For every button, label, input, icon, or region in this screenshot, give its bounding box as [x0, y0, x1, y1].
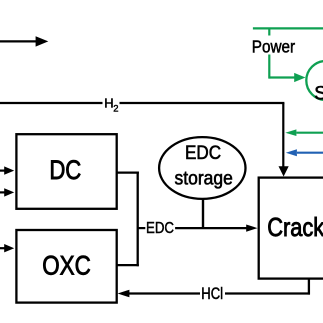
svg-text:Power: Power [252, 36, 296, 56]
svg-text:EDC: EDC [185, 142, 221, 163]
svg-text:S: S [314, 84, 323, 105]
svg-text:EDC: EDC [146, 220, 174, 237]
svg-text:Cracker: Cracker [267, 213, 323, 242]
svg-text:2: 2 [113, 103, 118, 114]
svg-text:H: H [104, 96, 113, 111]
svg-text:HCl: HCl [201, 284, 223, 303]
svg-text:storage: storage [175, 167, 233, 189]
svg-text:DC: DC [49, 156, 81, 186]
svg-text:OXC: OXC [42, 251, 91, 280]
